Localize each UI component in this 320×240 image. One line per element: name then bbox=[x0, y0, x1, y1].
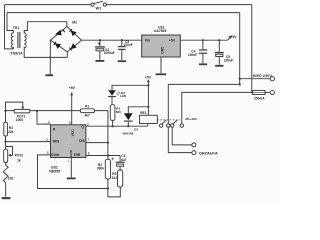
diode bridge top-left bbox=[56, 30, 65, 36]
junction C3 bbox=[121, 39, 123, 41]
label R2 value bbox=[97, 163, 104, 171]
regulator US2 uA7805 bbox=[142, 35, 181, 57]
wire mains vertical right outer bbox=[251, 5, 253, 93]
svg-text:+5V: +5V bbox=[230, 35, 237, 39]
wire pin 6 bbox=[86, 155, 120, 157]
svg-text:+5V: +5V bbox=[145, 76, 152, 80]
resistor R4 bbox=[4, 122, 8, 136]
wire contact to GRZALKA 1 bbox=[172, 127, 192, 144]
junction pin4-rail bbox=[36, 110, 38, 112]
transformer TR1 bbox=[11, 32, 26, 48]
diode D1 bbox=[124, 107, 148, 126]
wire mains drop to primary bottom bbox=[5, 5, 14, 49]
wire pin 5 to bottom rail bbox=[38, 155, 108, 189]
junction C4 bbox=[202, 39, 204, 41]
svg-text:10k: 10k bbox=[8, 176, 14, 180]
svg-text:CVolt: CVolt bbox=[51, 153, 60, 157]
svg-text:4k7: 4k7 bbox=[85, 113, 91, 117]
svg-text:680: 680 bbox=[116, 110, 121, 114]
svg-text:8: 8 bbox=[69, 121, 71, 125]
wire divider rail bbox=[6, 110, 81, 112]
wire secondary top to bridge bbox=[24, 22, 67, 34]
label US1 NE555 bbox=[49, 165, 60, 173]
svg-text:1N4148: 1N4148 bbox=[122, 131, 133, 135]
label R3 value bbox=[116, 107, 121, 115]
label C2 value bbox=[104, 48, 115, 55]
svg-text:W1: W1 bbox=[96, 7, 102, 11]
fuse 250mA bbox=[253, 90, 271, 94]
junction R4-pin2 bbox=[4, 141, 6, 143]
diode bridge bottom-left bbox=[54, 42, 61, 48]
svg-text:LED: LED bbox=[120, 94, 127, 98]
svg-text:uA7805: uA7805 bbox=[154, 29, 166, 33]
svg-text:RE1: RE1 bbox=[140, 111, 146, 115]
svg-text:390k: 390k bbox=[97, 167, 104, 171]
svg-text:M1+48V: M1+48V bbox=[186, 117, 197, 121]
junction C5 bbox=[218, 39, 220, 41]
wire secondary bottom AC rail bbox=[24, 47, 67, 58]
wire regulator GND pin bbox=[160, 57, 162, 73]
resistor R2 bbox=[105, 159, 110, 179]
svg-text:1k: 1k bbox=[17, 158, 21, 162]
LED D2 bbox=[108, 90, 120, 104]
wire relay coil bottom return bbox=[147, 124, 149, 127]
svg-text:NE555: NE555 bbox=[49, 170, 60, 174]
wire R3 to output line bbox=[112, 120, 114, 126]
ground C4 bbox=[199, 63, 207, 65]
label R5 value bbox=[112, 172, 118, 180]
svg-text:100k: 100k bbox=[16, 118, 23, 122]
svg-text:POT2: POT2 bbox=[15, 153, 24, 157]
bridge rectifier M1 outline bbox=[50, 27, 81, 52]
diode bridge bottom-right bbox=[69, 44, 76, 50]
junction C2 bbox=[99, 39, 101, 41]
label C4 value bbox=[188, 49, 197, 57]
svg-text:5: 5 bbox=[47, 151, 49, 155]
wire DC+ rail to regulator bbox=[82, 39, 142, 41]
wire pin 7 bbox=[86, 142, 108, 144]
svg-text:M1: M1 bbox=[72, 21, 77, 25]
label C3 value bbox=[124, 40, 133, 47]
node +5V arrow VCC bbox=[70, 92, 73, 95]
wire mains drop to primary top bbox=[7, 13, 13, 34]
junction R2-rail bbox=[107, 187, 109, 189]
node SIEC pin 1 bbox=[270, 77, 274, 81]
svg-text:100nF: 100nF bbox=[188, 53, 197, 57]
relay RE1 coil bbox=[140, 115, 158, 123]
diode bridge top-right bbox=[69, 29, 76, 35]
relay contact B bbox=[171, 120, 184, 127]
wire pin 4 to divider bbox=[37, 111, 51, 124]
ground C2 bbox=[96, 60, 105, 62]
svg-text:TS9/14: TS9/14 bbox=[10, 51, 23, 55]
wire mains line 2 bbox=[7, 12, 240, 14]
wire bridge left vertex to ground bbox=[49, 40, 51, 74]
svg-text:VCC: VCC bbox=[71, 129, 75, 137]
capacitor C1 bbox=[111, 156, 124, 171]
junction LED rail riser bbox=[147, 84, 149, 86]
label POT2 value bbox=[15, 153, 24, 162]
node SIEC pin 2 bbox=[270, 90, 274, 94]
svg-text:7: 7 bbox=[87, 138, 89, 142]
junction relay riser D1 bbox=[147, 106, 149, 108]
junction fuse corner bbox=[251, 91, 253, 93]
node GRZALKA pin 2 bbox=[192, 151, 196, 155]
wire LED rail bbox=[112, 85, 148, 90]
ground bridge bbox=[45, 74, 53, 76]
svg-text:DIS: DIS bbox=[79, 139, 85, 143]
potentiometer POT1 bbox=[6, 102, 30, 113]
svg-text:1000uF: 1000uF bbox=[104, 51, 115, 55]
wire mains vertical right inner bbox=[239, 13, 241, 85]
capacitor C2 bbox=[95, 40, 105, 60]
svg-text:TRG: TRG bbox=[52, 140, 60, 144]
relay contact A bbox=[160, 120, 171, 127]
wire contact B feed and fuse line bbox=[182, 92, 253, 123]
junction D1-output bbox=[127, 125, 129, 127]
svg-text:Vin: Vin bbox=[145, 39, 150, 43]
wire bridge bottom vertex stub bbox=[66, 52, 68, 58]
wire rail U to R5 bbox=[108, 187, 120, 197]
label D1 value bbox=[122, 128, 138, 136]
svg-text:22k: 22k bbox=[8, 130, 14, 134]
wire relay +5V riser bbox=[147, 85, 149, 115]
svg-text:GRZAŁKA: GRZAŁKA bbox=[199, 151, 218, 155]
wire pin 2 to POT2 bbox=[6, 142, 51, 150]
svg-text:Q: Q bbox=[81, 125, 84, 129]
ground regulator bbox=[156, 73, 167, 75]
junction AC rail ground bbox=[49, 56, 51, 58]
wire R2 bottom bbox=[107, 179, 109, 189]
label R4 value bbox=[8, 126, 14, 134]
wire R1 to DIS column bbox=[94, 111, 108, 160]
junction mains-SIEC bbox=[239, 78, 241, 80]
junction pin7 bbox=[107, 142, 109, 144]
label C1 value bbox=[121, 154, 127, 162]
wire contact A feed bbox=[168, 84, 239, 123]
wire to SIEC pin 1 bbox=[240, 78, 271, 80]
wire rail to R4 bbox=[5, 111, 7, 122]
wire contact to GRZALKA 2 bbox=[168, 127, 192, 152]
svg-text:GND: GND bbox=[69, 149, 73, 157]
svg-text:D1: D1 bbox=[134, 128, 138, 132]
relay actuation dashed link bbox=[157, 119, 180, 121]
junction contact feed bbox=[239, 83, 241, 85]
wire +5V output rail bbox=[180, 39, 227, 41]
svg-text:1k2: 1k2 bbox=[112, 176, 118, 180]
label C5 value bbox=[224, 55, 233, 63]
svg-text:+5V: +5V bbox=[169, 39, 176, 43]
node +5V arrow top right bbox=[228, 35, 232, 40]
wire mains line 1 (top, with switch W1) bbox=[5, 4, 252, 6]
label US2 uA7805 bbox=[154, 26, 166, 34]
svg-text:4u7: 4u7 bbox=[121, 158, 127, 162]
svg-text:1: 1 bbox=[68, 159, 70, 163]
label TS9/14 bbox=[9, 50, 28, 56]
IC US1 NE555 box bbox=[51, 125, 86, 158]
resistor R1 bbox=[80, 109, 94, 113]
resistor R3 bbox=[110, 105, 115, 121]
ground IC bbox=[67, 178, 76, 180]
svg-text:TR1: TR1 bbox=[13, 26, 20, 30]
junction pin6 bbox=[107, 154, 109, 156]
label POT1 value bbox=[16, 114, 26, 122]
svg-text:250mA: 250mA bbox=[254, 96, 265, 100]
svg-text:THR: THR bbox=[74, 153, 81, 157]
resistor R5 bbox=[118, 170, 123, 187]
ground C3 bbox=[118, 60, 126, 62]
svg-text:SIEĆ 230V: SIEĆ 230V bbox=[253, 73, 273, 78]
thermistor 10k bbox=[3, 163, 8, 197]
node +5V arrow relay bbox=[147, 79, 150, 85]
ground C5 bbox=[215, 65, 223, 67]
capacitor C4 bbox=[199, 40, 207, 63]
switch W1 bbox=[91, 1, 107, 6]
potentiometer POT2 bbox=[4, 147, 13, 163]
wire VCC riser bbox=[71, 92, 73, 124]
svg-text:R1: R1 bbox=[85, 104, 89, 108]
capacitor C3 bbox=[118, 40, 125, 60]
node GRZALKA pin 1 bbox=[192, 143, 196, 147]
wire R4 bottom to pin2 line bbox=[5, 136, 7, 142]
junction R3-output bbox=[112, 125, 114, 127]
ground thermistor bbox=[2, 197, 11, 199]
junction POT1-left bbox=[4, 110, 6, 112]
svg-text:220uF: 220uF bbox=[224, 59, 233, 63]
capacitor C5 bbox=[215, 40, 224, 64]
label D2 LED bbox=[120, 91, 127, 98]
wire pin 3 output line bbox=[86, 125, 148, 127]
svg-text:100nF: 100nF bbox=[124, 43, 133, 47]
wire pin 1 ground bbox=[70, 158, 72, 178]
label R1 value bbox=[85, 104, 91, 117]
svg-text:GND: GND bbox=[160, 46, 164, 54]
svg-text:+5V: +5V bbox=[69, 86, 76, 90]
